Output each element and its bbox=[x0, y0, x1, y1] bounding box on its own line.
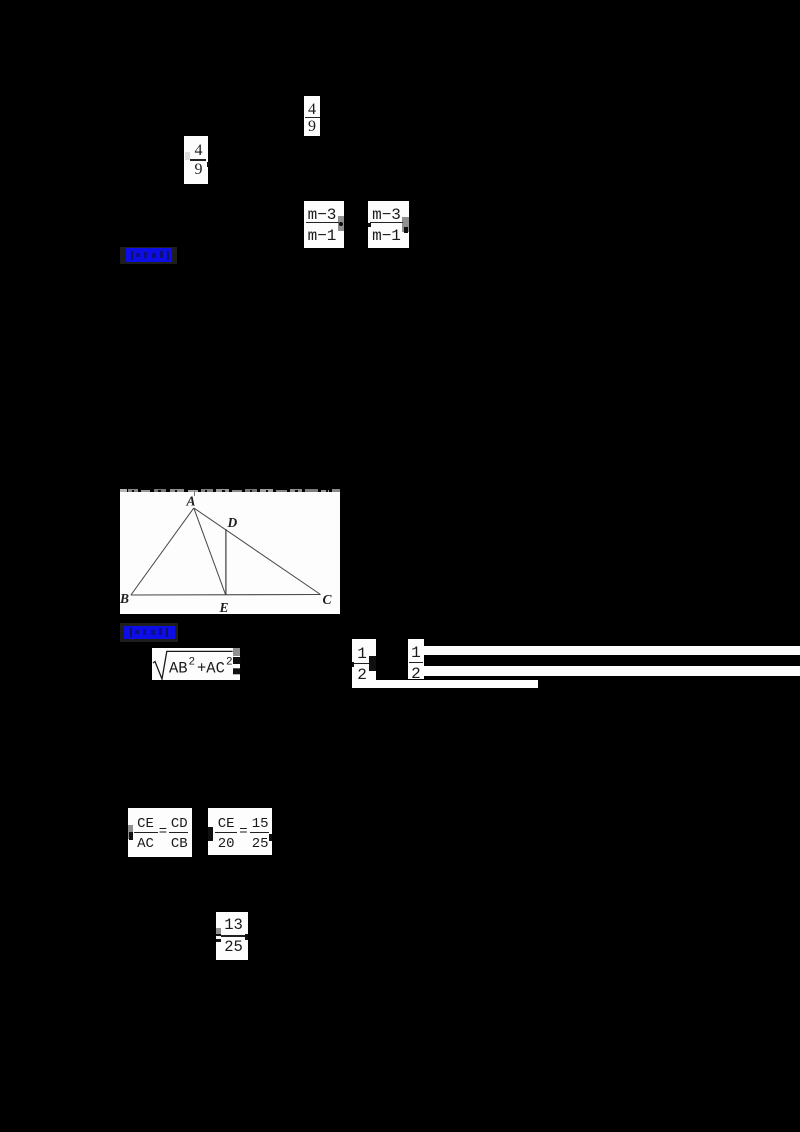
text fragment strip above diagram bbox=[120, 489, 127, 493]
fraction m-3/m-1 (second) bbox=[368, 201, 409, 249]
svg-text:A: A bbox=[186, 494, 196, 509]
wire line A-E bbox=[194, 508, 226, 595]
= 13/25 formula box bbox=[216, 912, 248, 960]
geometry diagram white box bbox=[120, 492, 339, 614]
svg-text:AB: AB bbox=[169, 659, 188, 677]
wire line B-A bbox=[131, 508, 194, 595]
text fragment specks bbox=[132, 490, 134, 493]
fraction 4/9 (first, inline) bbox=[304, 96, 320, 136]
svg-text:2: 2 bbox=[226, 656, 233, 668]
svg-text:D: D bbox=[227, 515, 238, 530]
radical sign bbox=[153, 651, 233, 679]
fraction 1/2 (first) bbox=[352, 639, 376, 687]
wire line B-C bbox=[131, 594, 321, 597]
CE/AC = CD/CB formula box bbox=[128, 808, 192, 858]
wire line A-C bbox=[194, 508, 321, 595]
CE/20 = 15/25 formula box bbox=[208, 808, 272, 855]
triangle diagram bbox=[120, 492, 340, 614]
blue highlight box 1 bbox=[120, 247, 177, 265]
stroke above label A bbox=[194, 491, 195, 496]
white strip under bbox=[352, 680, 538, 688]
fraction 1/2 (second) bbox=[408, 639, 424, 679]
fraction 4/9 (second, answer blank) bbox=[184, 136, 208, 184]
selected equals fragment bbox=[233, 657, 240, 664]
long white strips to right edge bbox=[424, 646, 800, 655]
fraction m-3/m-1 (first) bbox=[304, 201, 344, 249]
wire line D-E bbox=[225, 529, 227, 595]
svg-text:2: 2 bbox=[188, 656, 195, 668]
svg-text:+AC: +AC bbox=[197, 659, 225, 677]
svg-text:E: E bbox=[219, 600, 229, 614]
sqrt(AB^2+AC^2) formula box bbox=[152, 648, 240, 680]
blue highlight box 2 bbox=[120, 623, 178, 642]
svg-text:C: C bbox=[323, 592, 333, 607]
svg-text:B: B bbox=[120, 591, 129, 606]
